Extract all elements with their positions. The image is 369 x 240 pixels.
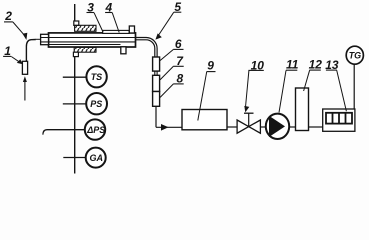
wire to box 9 with flow arrow bbox=[156, 126, 182, 128]
leader 11 bbox=[279, 70, 286, 112]
upper flange hatched bbox=[75, 25, 96, 31]
leader 7 bbox=[160, 66, 173, 80]
wire item8 down bbox=[155, 106, 157, 127]
filter 6 bbox=[153, 57, 160, 71]
sensor circle dPS with hook bbox=[43, 130, 85, 135]
gas counter 13 display cells bbox=[326, 113, 352, 124]
leader 13 bbox=[337, 70, 347, 111]
wire pump to column 12 bbox=[289, 126, 295, 128]
filter element 1 bbox=[22, 61, 27, 74]
valve stem bbox=[248, 113, 250, 126]
svg-text:11: 11 bbox=[286, 58, 299, 72]
svg-text:2: 2 bbox=[4, 9, 12, 23]
lower flange hatched bbox=[74, 47, 96, 52]
probe inner third line bbox=[49, 44, 121, 46]
pump 11 circle bbox=[266, 114, 289, 139]
leader 5 bbox=[158, 12, 174, 36]
probe left cap bbox=[41, 34, 49, 44]
valve handle bbox=[244, 112, 254, 114]
column 12 bbox=[296, 88, 309, 131]
leader 8 bbox=[160, 84, 173, 98]
capillary bend 5 inner bbox=[136, 40, 155, 57]
probe outer tube 3 bbox=[49, 33, 136, 47]
lower gland tab bbox=[73, 52, 78, 56]
probe bottom stub bbox=[121, 47, 126, 54]
gas counter 13 outer box bbox=[323, 109, 355, 131]
filter 7 bbox=[153, 75, 160, 91]
tube 2 curve from item 1 to probe bbox=[26, 40, 35, 62]
capillary bend 5 outer bbox=[136, 38, 158, 58]
leader 2 bbox=[13, 22, 25, 36]
connector tube 6-7 bbox=[154, 71, 156, 75]
filter 8 bbox=[153, 92, 160, 107]
svg-text:ΔPS: ΔPS bbox=[86, 125, 105, 135]
wall line upper bbox=[74, 4, 76, 25]
upper gland tab bbox=[74, 21, 79, 25]
leader 3 bbox=[94, 13, 103, 32]
leader 10 bbox=[246, 71, 249, 107]
probe inner tube line bottom bbox=[41, 41, 136, 43]
svg-text:9: 9 bbox=[207, 59, 214, 73]
probe inner tube line top bbox=[41, 37, 136, 39]
probe top stub bbox=[129, 26, 134, 33]
leader 9 bbox=[198, 72, 207, 121]
wire column 12 to counter 13 bbox=[309, 126, 323, 128]
sensor circle GA bbox=[63, 157, 86, 159]
pump rotor triangle bbox=[269, 116, 285, 137]
probe raised block 4 bbox=[103, 30, 129, 33]
svg-text:PS: PS bbox=[90, 99, 102, 109]
svg-text:TS: TS bbox=[91, 72, 103, 82]
box 9 bbox=[182, 110, 227, 130]
TG circle bbox=[346, 46, 363, 64]
inlet arrow below item 1 bbox=[23, 76, 27, 82]
sensor circle TS bbox=[63, 76, 87, 78]
probe needle tip bbox=[36, 38, 41, 40]
svg-text:6: 6 bbox=[175, 37, 182, 51]
wire box9 to valve bbox=[227, 126, 237, 128]
leader 6 bbox=[160, 50, 173, 61]
wire valve to pump bbox=[260, 126, 265, 128]
svg-text:12: 12 bbox=[309, 58, 323, 72]
valve 10 bowtie bbox=[237, 120, 249, 133]
sensor circle PS bbox=[63, 103, 86, 105]
svg-text:TG: TG bbox=[349, 51, 362, 61]
wire TG down to counter bbox=[353, 64, 355, 109]
leader 4 bbox=[112, 13, 119, 33]
leader 1 bbox=[11, 57, 20, 63]
leader 12 bbox=[304, 70, 310, 91]
svg-text:GA: GA bbox=[90, 153, 104, 163]
wall line lower bbox=[74, 52, 76, 173]
